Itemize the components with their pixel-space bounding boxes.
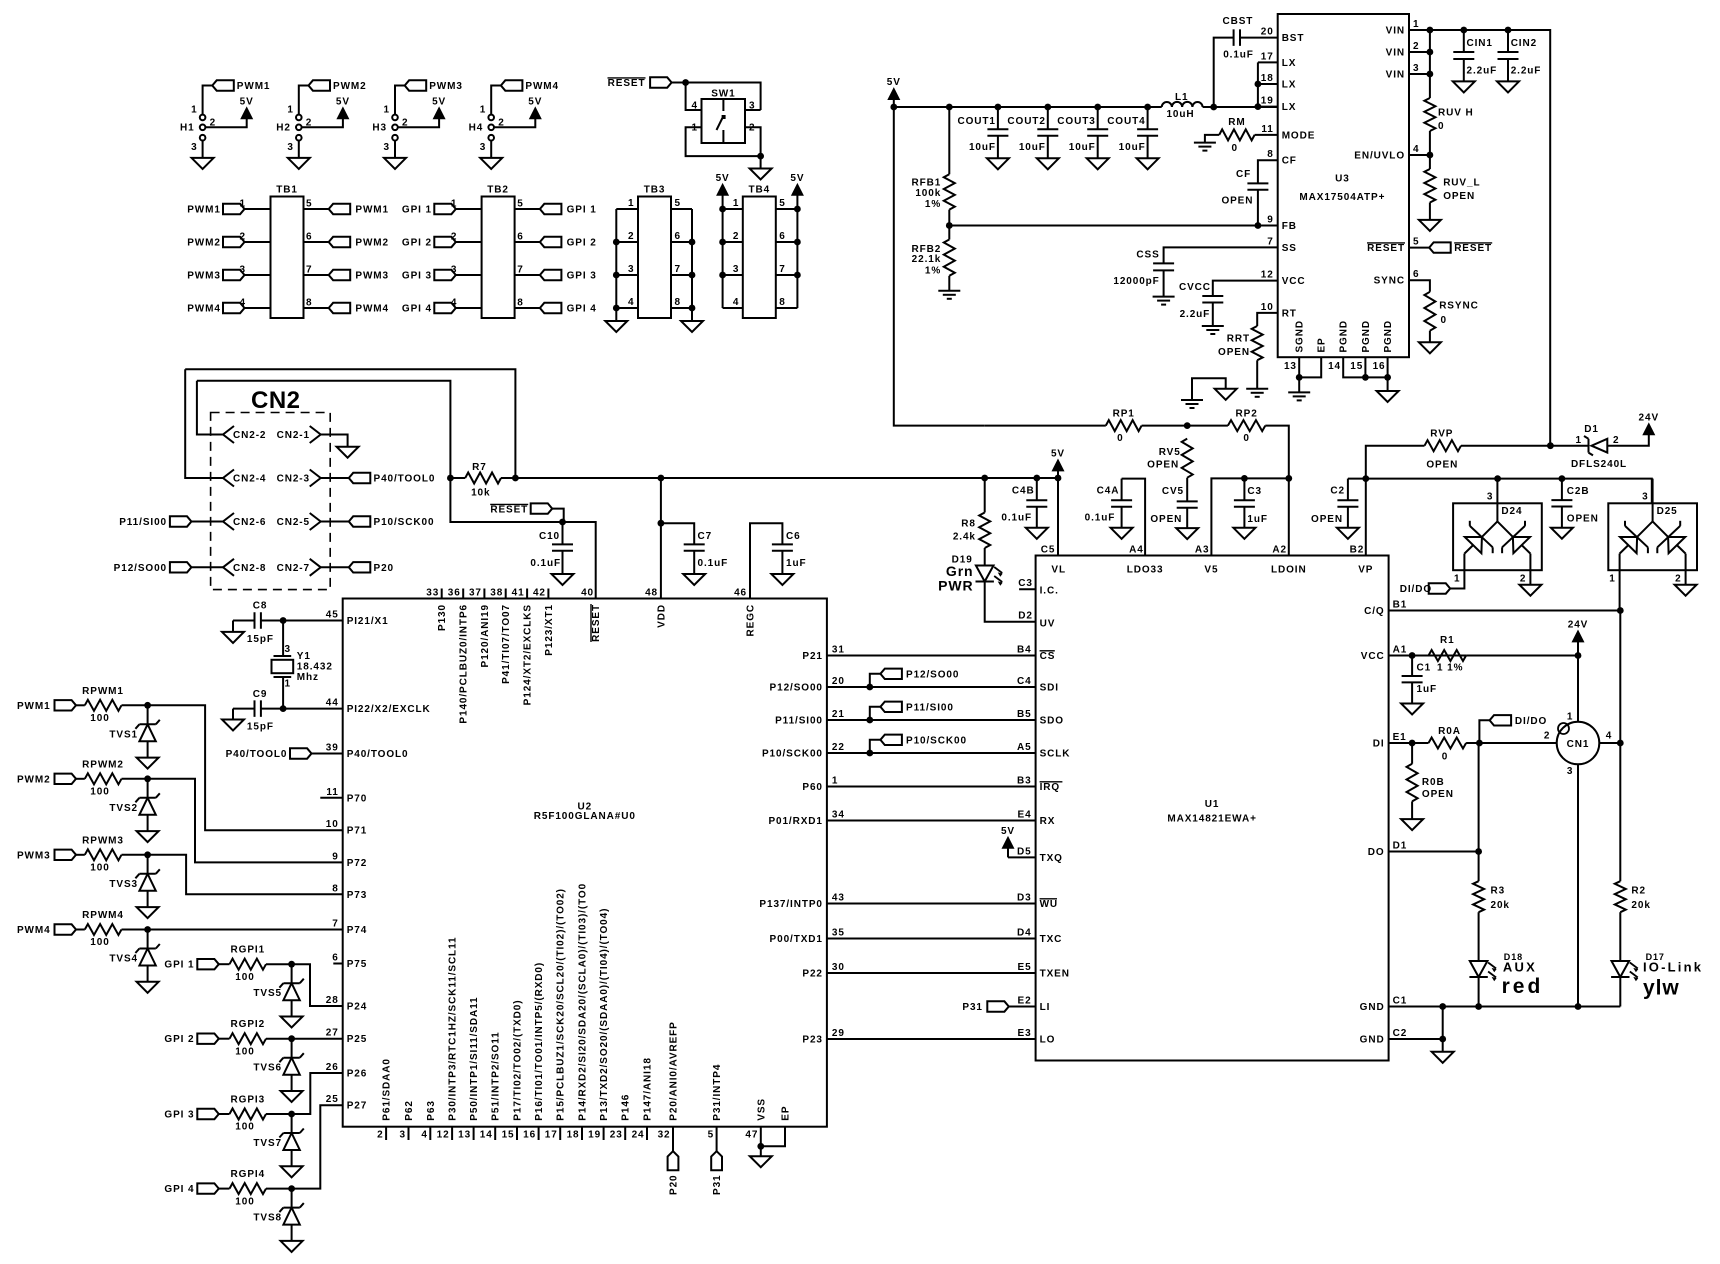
svg-text:VCC: VCC bbox=[1282, 276, 1306, 287]
svg-text:P24: P24 bbox=[347, 1002, 368, 1013]
svg-text:COUT3: COUT3 bbox=[1057, 116, 1095, 127]
svg-text:red: red bbox=[1502, 975, 1544, 998]
svg-text:20: 20 bbox=[832, 676, 845, 687]
svg-text:A2: A2 bbox=[1272, 544, 1287, 555]
svg-text:3: 3 bbox=[287, 142, 293, 153]
svg-text:36: 36 bbox=[448, 588, 461, 599]
svg-text:U3: U3 bbox=[1335, 173, 1350, 184]
svg-text:1%: 1% bbox=[925, 265, 941, 276]
svg-text:P11/SI00: P11/SI00 bbox=[775, 716, 823, 727]
svg-text:C4A: C4A bbox=[1097, 485, 1120, 496]
svg-text:PWM3: PWM3 bbox=[187, 271, 221, 282]
svg-text:2: 2 bbox=[240, 232, 246, 243]
svg-text:P41/TI07/TO07: P41/TI07/TO07 bbox=[501, 604, 512, 684]
svg-text:16: 16 bbox=[523, 1130, 536, 1141]
svg-text:10k: 10k bbox=[471, 487, 490, 498]
svg-text:TVS5: TVS5 bbox=[253, 988, 282, 999]
svg-text:C2B: C2B bbox=[1567, 486, 1590, 497]
svg-text:DI/DO: DI/DO bbox=[1400, 584, 1432, 595]
svg-text:RV5: RV5 bbox=[1159, 447, 1181, 458]
svg-text:D1: D1 bbox=[1393, 841, 1408, 852]
svg-text:2: 2 bbox=[1413, 41, 1419, 52]
svg-text:15pF: 15pF bbox=[247, 634, 274, 645]
svg-text:10uF: 10uF bbox=[1069, 142, 1096, 153]
svg-text:5V: 5V bbox=[716, 173, 730, 184]
svg-text:PGND: PGND bbox=[1361, 320, 1372, 353]
svg-text:5: 5 bbox=[517, 199, 523, 210]
svg-text:PWM3: PWM3 bbox=[429, 81, 463, 92]
svg-text:P25: P25 bbox=[347, 1034, 368, 1045]
svg-text:18: 18 bbox=[1261, 73, 1274, 84]
svg-text:C4B: C4B bbox=[1012, 485, 1035, 496]
svg-text:PWM4: PWM4 bbox=[17, 925, 51, 936]
svg-text:6: 6 bbox=[332, 953, 338, 964]
svg-text:0.1uF: 0.1uF bbox=[1223, 50, 1254, 61]
svg-text:A1: A1 bbox=[1393, 645, 1408, 656]
svg-text:RGPI2: RGPI2 bbox=[231, 1019, 266, 1030]
svg-text:COUT4: COUT4 bbox=[1107, 116, 1145, 127]
svg-text:R7: R7 bbox=[472, 462, 487, 473]
svg-text:P17/TI02/TO02/(TXD0): P17/TI02/TO02/(TXD0) bbox=[513, 999, 524, 1120]
svg-text:9: 9 bbox=[1267, 215, 1273, 226]
svg-text:2: 2 bbox=[733, 231, 739, 242]
svg-text:25: 25 bbox=[326, 1094, 339, 1105]
svg-text:B5: B5 bbox=[1017, 709, 1032, 720]
svg-text:7: 7 bbox=[332, 919, 338, 930]
svg-text:100: 100 bbox=[90, 713, 109, 724]
svg-text:CBST: CBST bbox=[1222, 16, 1253, 27]
svg-text:A3: A3 bbox=[1195, 544, 1210, 555]
svg-text:P120/ANI19: P120/ANI19 bbox=[480, 604, 491, 667]
svg-text:P01/RXD1: P01/RXD1 bbox=[768, 816, 822, 827]
svg-text:3: 3 bbox=[1413, 63, 1419, 74]
svg-text:8: 8 bbox=[517, 298, 523, 309]
svg-text:C3: C3 bbox=[1247, 486, 1262, 497]
svg-text:I.C.: I.C. bbox=[1040, 586, 1059, 597]
svg-text:7: 7 bbox=[517, 265, 523, 276]
svg-text:LX: LX bbox=[1282, 80, 1297, 91]
svg-text:4: 4 bbox=[240, 298, 246, 309]
svg-text:TXC: TXC bbox=[1040, 934, 1063, 945]
svg-text:R0A: R0A bbox=[1438, 726, 1461, 737]
svg-text:35: 35 bbox=[832, 928, 845, 939]
svg-text:0: 0 bbox=[1442, 751, 1448, 762]
svg-text:5V: 5V bbox=[432, 96, 446, 107]
svg-text:SDO: SDO bbox=[1040, 716, 1064, 727]
svg-text:OPEN: OPEN bbox=[1221, 196, 1253, 207]
svg-text:RSYNC: RSYNC bbox=[1439, 301, 1479, 312]
svg-text:A4: A4 bbox=[1129, 544, 1144, 555]
svg-text:1: 1 bbox=[451, 199, 457, 210]
svg-text:C1: C1 bbox=[1417, 663, 1432, 674]
svg-text:H3: H3 bbox=[372, 123, 387, 134]
svg-text:TVS8: TVS8 bbox=[253, 1213, 282, 1224]
svg-text:R8: R8 bbox=[961, 518, 976, 529]
svg-text:D24: D24 bbox=[1501, 506, 1522, 517]
svg-text:44: 44 bbox=[326, 698, 339, 709]
svg-text:LX: LX bbox=[1282, 102, 1297, 113]
svg-text:5: 5 bbox=[1413, 237, 1419, 248]
svg-text:33: 33 bbox=[426, 588, 439, 599]
svg-text:PWM2: PWM2 bbox=[187, 238, 221, 249]
svg-text:27: 27 bbox=[326, 1028, 339, 1039]
svg-text:5V: 5V bbox=[528, 96, 542, 107]
svg-text:RT: RT bbox=[1282, 308, 1297, 319]
svg-text:PWM2: PWM2 bbox=[355, 238, 389, 249]
svg-text:5V: 5V bbox=[1001, 826, 1015, 837]
svg-text:CF: CF bbox=[1282, 156, 1297, 167]
svg-text:3: 3 bbox=[1642, 492, 1648, 503]
svg-text:13: 13 bbox=[1284, 361, 1297, 372]
svg-text:P70: P70 bbox=[347, 793, 368, 804]
svg-text:C3: C3 bbox=[1018, 578, 1033, 589]
svg-text:12: 12 bbox=[437, 1130, 450, 1141]
svg-text:PI22/X2/EXCLK: PI22/X2/EXCLK bbox=[347, 704, 431, 715]
svg-text:TVS2: TVS2 bbox=[109, 803, 138, 814]
svg-text:PWM4: PWM4 bbox=[525, 81, 559, 92]
svg-text:SS: SS bbox=[1282, 243, 1297, 254]
svg-text:47: 47 bbox=[745, 1130, 758, 1141]
svg-text:1: 1 bbox=[287, 105, 293, 116]
svg-text:P71: P71 bbox=[347, 826, 368, 837]
svg-text:0: 0 bbox=[1441, 315, 1447, 326]
svg-text:11: 11 bbox=[326, 787, 338, 798]
svg-text:RESET: RESET bbox=[591, 604, 602, 642]
svg-text:OPEN: OPEN bbox=[1567, 514, 1599, 525]
svg-text:8: 8 bbox=[675, 297, 681, 308]
svg-text:P20: P20 bbox=[669, 1175, 680, 1196]
svg-text:P146: P146 bbox=[621, 1094, 632, 1121]
svg-text:RGPI3: RGPI3 bbox=[231, 1095, 266, 1106]
svg-text:COUT2: COUT2 bbox=[1007, 116, 1045, 127]
svg-text:22: 22 bbox=[832, 742, 845, 753]
svg-text:1: 1 bbox=[480, 105, 486, 116]
svg-text:CN2-1: CN2-1 bbox=[277, 430, 310, 441]
svg-text:IO-Link: IO-Link bbox=[1643, 960, 1703, 975]
svg-text:P12/SO00: P12/SO00 bbox=[906, 669, 959, 680]
svg-text:8: 8 bbox=[1267, 149, 1273, 160]
svg-text:TXEN: TXEN bbox=[1040, 969, 1070, 980]
svg-text:6: 6 bbox=[306, 232, 312, 243]
svg-text:PGND: PGND bbox=[1383, 320, 1394, 353]
svg-text:E3: E3 bbox=[1018, 1028, 1032, 1039]
svg-text:10uH: 10uH bbox=[1166, 109, 1194, 120]
svg-text:P73: P73 bbox=[347, 890, 368, 901]
svg-text:EN/UVLO: EN/UVLO bbox=[1354, 151, 1405, 162]
svg-text:GPI 3: GPI 3 bbox=[164, 1110, 194, 1121]
svg-text:1uF: 1uF bbox=[786, 558, 806, 569]
svg-text:TVS7: TVS7 bbox=[253, 1138, 282, 1149]
svg-text:15: 15 bbox=[1350, 361, 1363, 372]
svg-text:PWM4: PWM4 bbox=[355, 304, 389, 315]
svg-text:LI: LI bbox=[1040, 1002, 1051, 1013]
svg-text:5V: 5V bbox=[887, 77, 901, 88]
svg-text:B3: B3 bbox=[1017, 776, 1032, 787]
svg-text:37: 37 bbox=[469, 588, 482, 599]
svg-text:DO: DO bbox=[1368, 847, 1385, 858]
svg-text:E2: E2 bbox=[1018, 996, 1032, 1007]
svg-text:VIN: VIN bbox=[1386, 70, 1405, 81]
svg-text:P13/TXD2/SO20/(SDAA0)/(TI04)/(: P13/TXD2/SO20/(SDAA0)/(TI04)/(TO04) bbox=[599, 908, 610, 1121]
svg-text:6: 6 bbox=[517, 232, 523, 243]
svg-text:0: 0 bbox=[1117, 433, 1123, 444]
svg-text:100: 100 bbox=[90, 787, 109, 798]
svg-text:VL: VL bbox=[1051, 564, 1066, 575]
svg-text:RPWM2: RPWM2 bbox=[82, 759, 124, 770]
svg-text:1: 1 bbox=[628, 198, 634, 209]
svg-text:RGPI4: RGPI4 bbox=[231, 1169, 266, 1180]
svg-text:CV5: CV5 bbox=[1162, 486, 1184, 497]
svg-text:46: 46 bbox=[734, 588, 747, 599]
svg-text:P23: P23 bbox=[802, 1035, 823, 1046]
svg-text:4: 4 bbox=[1606, 731, 1612, 742]
svg-text:RRT: RRT bbox=[1227, 333, 1250, 344]
svg-text:1: 1 bbox=[384, 105, 390, 116]
svg-text:GPI 4: GPI 4 bbox=[567, 304, 597, 315]
svg-text:100: 100 bbox=[235, 1122, 254, 1133]
svg-text:P21: P21 bbox=[802, 651, 823, 662]
svg-text:P12/SO00: P12/SO00 bbox=[114, 563, 167, 574]
svg-text:RFB1: RFB1 bbox=[911, 177, 941, 188]
svg-text:RUV H: RUV H bbox=[1438, 108, 1474, 119]
svg-text:100: 100 bbox=[235, 1046, 254, 1057]
svg-text:23: 23 bbox=[610, 1130, 623, 1141]
svg-text:2: 2 bbox=[402, 117, 408, 128]
svg-text:2: 2 bbox=[1613, 435, 1619, 446]
svg-text:IRQ: IRQ bbox=[1040, 782, 1060, 793]
svg-text:5V: 5V bbox=[336, 96, 350, 107]
svg-text:VSS: VSS bbox=[756, 1098, 767, 1121]
svg-text:CIN2: CIN2 bbox=[1511, 38, 1537, 49]
svg-text:RPWM1: RPWM1 bbox=[82, 686, 124, 697]
svg-text:DI/DO: DI/DO bbox=[1515, 716, 1547, 727]
svg-text:1: 1 bbox=[191, 105, 197, 116]
svg-text:P40/TOOL0: P40/TOOL0 bbox=[374, 474, 436, 485]
svg-text:20: 20 bbox=[1261, 27, 1274, 38]
svg-text:29: 29 bbox=[832, 1028, 845, 1039]
svg-text:WU: WU bbox=[1040, 899, 1058, 910]
svg-text:PWM1: PWM1 bbox=[237, 81, 271, 92]
svg-text:4: 4 bbox=[451, 298, 457, 309]
svg-text:P130: P130 bbox=[437, 604, 448, 631]
svg-text:0: 0 bbox=[1243, 433, 1249, 444]
svg-text:2.2uF: 2.2uF bbox=[1467, 65, 1498, 76]
svg-text:GND: GND bbox=[1360, 1002, 1385, 1013]
svg-text:PWM4: PWM4 bbox=[187, 304, 221, 315]
svg-text:CS: CS bbox=[1040, 651, 1056, 662]
svg-text:R2: R2 bbox=[1631, 886, 1646, 897]
svg-text:31: 31 bbox=[832, 645, 845, 656]
svg-text:OPEN: OPEN bbox=[1147, 460, 1179, 471]
svg-text:P140/PCLBUZ0/INTP6: P140/PCLBUZ0/INTP6 bbox=[459, 604, 470, 724]
svg-text:RPWM4: RPWM4 bbox=[82, 910, 124, 921]
svg-text:1: 1 bbox=[285, 679, 291, 690]
svg-text:0: 0 bbox=[1231, 143, 1237, 154]
svg-text:OPEN: OPEN bbox=[1218, 347, 1250, 358]
svg-text:RESET: RESET bbox=[1367, 243, 1405, 254]
svg-text:P63: P63 bbox=[426, 1100, 437, 1121]
svg-text:GPI 4: GPI 4 bbox=[402, 304, 432, 315]
svg-text:SW1: SW1 bbox=[711, 89, 735, 100]
svg-text:5: 5 bbox=[708, 1130, 714, 1141]
svg-text:17: 17 bbox=[1261, 51, 1274, 62]
svg-text:7: 7 bbox=[1267, 236, 1273, 247]
svg-text:P15/PCLBUZ1/SCK20/SCL20/(TI02): P15/PCLBUZ1/SCK20/SCL20/(TI02)/(TO02) bbox=[556, 888, 567, 1121]
svg-text:P123/XT1: P123/XT1 bbox=[544, 604, 555, 656]
svg-text:RGPI1: RGPI1 bbox=[231, 945, 266, 956]
svg-text:CN2-2: CN2-2 bbox=[233, 430, 266, 441]
svg-text:D25: D25 bbox=[1657, 506, 1678, 517]
svg-text:18: 18 bbox=[567, 1130, 580, 1141]
svg-text:P30/INTP3/RTC1HZ/SCK11/SCL11: P30/INTP3/RTC1HZ/SCK11/SCL11 bbox=[448, 937, 459, 1121]
svg-text:P00/TXD1: P00/TXD1 bbox=[770, 934, 823, 945]
svg-text:4: 4 bbox=[1413, 144, 1419, 155]
svg-text:5: 5 bbox=[306, 199, 312, 210]
svg-text:4: 4 bbox=[628, 297, 634, 308]
svg-text:P11/SI00: P11/SI00 bbox=[906, 702, 954, 713]
svg-text:RUV_L: RUV_L bbox=[1443, 178, 1480, 189]
svg-text:P137/INTP0: P137/INTP0 bbox=[759, 899, 822, 910]
svg-text:D2: D2 bbox=[1018, 611, 1033, 622]
svg-text:0: 0 bbox=[1438, 121, 1444, 132]
svg-text:B1: B1 bbox=[1393, 600, 1408, 611]
svg-text:GPI 2: GPI 2 bbox=[567, 238, 597, 249]
svg-text:14: 14 bbox=[1328, 361, 1341, 372]
svg-text:OPEN: OPEN bbox=[1422, 789, 1454, 800]
svg-text:CF: CF bbox=[1236, 169, 1251, 180]
svg-text:19: 19 bbox=[1261, 96, 1274, 107]
svg-text:C7: C7 bbox=[698, 531, 713, 542]
svg-text:GPI 2: GPI 2 bbox=[164, 1034, 194, 1045]
svg-text:PWM1: PWM1 bbox=[355, 205, 389, 216]
svg-text:VP: VP bbox=[1358, 564, 1373, 575]
svg-text:17: 17 bbox=[545, 1130, 558, 1141]
svg-text:TB2: TB2 bbox=[487, 185, 509, 196]
svg-text:EP: EP bbox=[1317, 337, 1328, 352]
svg-text:16: 16 bbox=[1373, 361, 1386, 372]
svg-text:PGND: PGND bbox=[1339, 320, 1350, 353]
svg-text:100: 100 bbox=[235, 972, 254, 983]
svg-text:2.4k: 2.4k bbox=[953, 532, 976, 543]
svg-text:P61/SDAA0: P61/SDAA0 bbox=[382, 1058, 393, 1121]
svg-text:6: 6 bbox=[1413, 269, 1419, 280]
svg-text:GPI 1: GPI 1 bbox=[402, 205, 432, 216]
svg-text:5: 5 bbox=[779, 198, 785, 209]
svg-text:1: 1 bbox=[240, 199, 246, 210]
svg-text:8: 8 bbox=[306, 298, 312, 309]
svg-text:P72: P72 bbox=[347, 858, 368, 869]
svg-text:4: 4 bbox=[733, 297, 739, 308]
svg-text:P50/INTP1/SI11/SDA11: P50/INTP1/SI11/SDA11 bbox=[469, 997, 480, 1121]
svg-text:10: 10 bbox=[1261, 302, 1274, 313]
svg-text:38: 38 bbox=[490, 588, 503, 599]
svg-text:P12/SO00: P12/SO00 bbox=[770, 683, 823, 694]
svg-text:1%: 1% bbox=[925, 199, 941, 210]
svg-text:FB: FB bbox=[1282, 221, 1297, 232]
svg-text:TVS6: TVS6 bbox=[253, 1063, 282, 1074]
svg-text:5: 5 bbox=[675, 198, 681, 209]
svg-text:OPEN: OPEN bbox=[1443, 191, 1475, 202]
svg-text:1: 1 bbox=[1567, 711, 1573, 722]
svg-text:0.1uF: 0.1uF bbox=[1001, 512, 1032, 523]
svg-text:R0B: R0B bbox=[1422, 777, 1445, 788]
svg-text:H1: H1 bbox=[180, 123, 195, 134]
svg-text:COUT1: COUT1 bbox=[957, 116, 995, 127]
svg-text:7: 7 bbox=[675, 264, 681, 275]
svg-text:6: 6 bbox=[779, 231, 785, 242]
svg-text:P60: P60 bbox=[802, 782, 823, 793]
svg-text:CIN1: CIN1 bbox=[1467, 38, 1493, 49]
svg-text:P147/ANI18: P147/ANI18 bbox=[643, 1057, 654, 1120]
svg-text:P31: P31 bbox=[712, 1175, 723, 1196]
svg-text:PI21/X1: PI21/X1 bbox=[347, 616, 389, 627]
svg-text:3: 3 bbox=[285, 644, 291, 655]
svg-text:TB1: TB1 bbox=[276, 185, 298, 196]
svg-text:21: 21 bbox=[832, 709, 845, 720]
svg-text:RESET: RESET bbox=[1454, 243, 1492, 254]
svg-text:DFLS240L: DFLS240L bbox=[1571, 459, 1627, 470]
svg-text:2: 2 bbox=[749, 122, 755, 133]
svg-text:VIN: VIN bbox=[1386, 48, 1405, 59]
svg-text:EP: EP bbox=[781, 1106, 792, 1121]
svg-text:RVP: RVP bbox=[1430, 429, 1453, 440]
svg-text:100k: 100k bbox=[915, 188, 941, 199]
svg-text:24V: 24V bbox=[1639, 412, 1660, 423]
svg-text:3: 3 bbox=[1487, 492, 1493, 503]
svg-text:1: 1 bbox=[1413, 19, 1419, 30]
svg-text:CVCC: CVCC bbox=[1179, 282, 1211, 293]
svg-text:100: 100 bbox=[235, 1196, 254, 1207]
svg-text:3: 3 bbox=[451, 265, 457, 276]
svg-text:MAX14821EWA+: MAX14821EWA+ bbox=[1167, 813, 1256, 824]
svg-text:E5: E5 bbox=[1018, 962, 1032, 973]
svg-text:PWM1: PWM1 bbox=[187, 205, 221, 216]
svg-text:11: 11 bbox=[1261, 124, 1273, 135]
svg-text:R5F100GLANA#U0: R5F100GLANA#U0 bbox=[534, 811, 636, 822]
svg-text:8: 8 bbox=[332, 883, 338, 894]
svg-text:GPI 1: GPI 1 bbox=[567, 205, 597, 216]
svg-text:3: 3 bbox=[733, 264, 739, 275]
svg-text:2: 2 bbox=[498, 117, 504, 128]
svg-text:D4: D4 bbox=[1017, 928, 1032, 939]
svg-text:CN1: CN1 bbox=[1567, 739, 1590, 750]
svg-text:VDD: VDD bbox=[656, 604, 667, 628]
svg-text:U1: U1 bbox=[1205, 799, 1220, 810]
svg-text:P51/INTP2/SO11: P51/INTP2/SO11 bbox=[491, 1031, 502, 1120]
svg-text:PWR: PWR bbox=[938, 577, 973, 593]
svg-text:P10/SCK00: P10/SCK00 bbox=[762, 749, 823, 760]
svg-text:B4: B4 bbox=[1017, 645, 1032, 656]
svg-text:19: 19 bbox=[588, 1130, 601, 1141]
svg-text:2: 2 bbox=[451, 232, 457, 243]
svg-text:C2: C2 bbox=[1330, 485, 1345, 496]
svg-text:ylw: ylw bbox=[1643, 977, 1680, 1000]
svg-text:1: 1 bbox=[692, 122, 698, 133]
svg-text:LDO33: LDO33 bbox=[1127, 564, 1164, 575]
svg-text:22.1k: 22.1k bbox=[912, 254, 942, 265]
svg-text:14: 14 bbox=[480, 1130, 493, 1141]
svg-text:LX: LX bbox=[1282, 58, 1297, 69]
svg-text:C10: C10 bbox=[539, 531, 560, 542]
svg-text:C/Q: C/Q bbox=[1364, 606, 1384, 617]
svg-text:P10/SCK00: P10/SCK00 bbox=[906, 735, 967, 746]
svg-text:2: 2 bbox=[1675, 574, 1681, 585]
svg-text:2.2uF: 2.2uF bbox=[1511, 65, 1542, 76]
svg-text:OPEN: OPEN bbox=[1311, 514, 1343, 525]
svg-text:0.1uF: 0.1uF bbox=[1085, 512, 1116, 523]
svg-text:4: 4 bbox=[421, 1130, 427, 1141]
svg-text:GPI 3: GPI 3 bbox=[567, 271, 597, 282]
